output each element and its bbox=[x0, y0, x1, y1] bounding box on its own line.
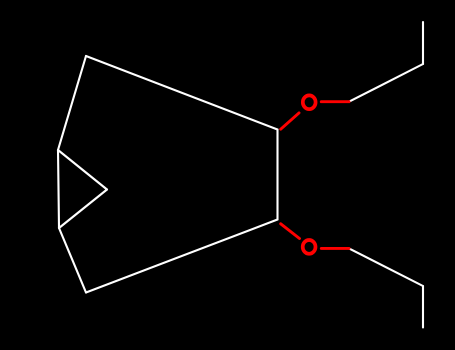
bond C to O2 bbox=[281, 224, 300, 239]
ethyl top diagonal bbox=[349, 64, 423, 102]
cyclopropane bond F-G bbox=[58, 150, 107, 190]
ring bond C-D bottom diagonal bbox=[86, 220, 278, 293]
ring bond E-F left vertical bbox=[58, 150, 59, 228]
ring bond A-B top diagonal bbox=[86, 56, 278, 130]
bond O1 to CH2 top bbox=[321, 100, 349, 103]
ring bond F-A bbox=[58, 56, 86, 150]
atom O1 bbox=[303, 95, 316, 109]
ethyl top vertical bbox=[422, 22, 424, 64]
ethyl bottom diagonal bbox=[349, 248, 423, 286]
ethyl bottom vertical bbox=[422, 286, 424, 328]
bond O2 to CH2 bottom bbox=[321, 247, 349, 250]
ring bond B-C right vertical bbox=[276, 130, 278, 220]
atom O2 bbox=[303, 240, 316, 254]
ring bond D-E bbox=[59, 228, 86, 293]
bond B to O1 bbox=[281, 113, 299, 129]
cyclopropane bond G-E bbox=[59, 190, 107, 229]
